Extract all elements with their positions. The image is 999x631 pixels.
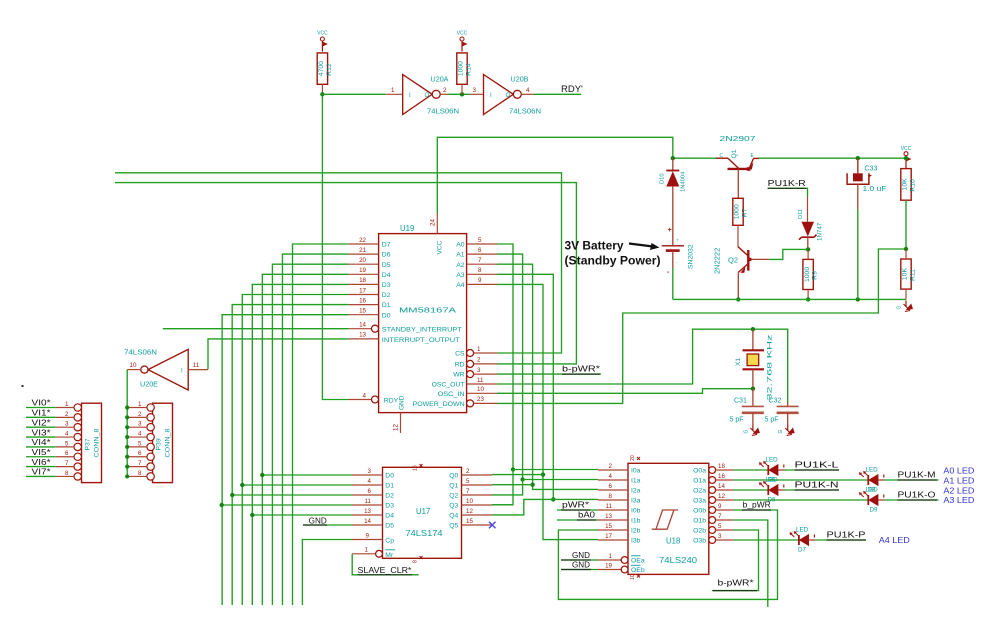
wire Q0 to A4 — [492, 474, 543, 476]
wire pin stub P39.2 — [128, 416, 147, 418]
svg-text:CONN_8: CONN_8 — [94, 428, 101, 457]
bubble U20E output — [141, 366, 148, 373]
wire pin stub U20B pin3 — [470, 93, 484, 95]
wire pin stub U19 D0 — [349, 314, 379, 316]
wire net b_pWR loop I2b-O0b — [558, 510, 777, 599]
svg-text:3: 3 — [138, 421, 142, 428]
svg-text:I0b: I0b — [631, 508, 641, 515]
svg-text:15: 15 — [359, 308, 366, 315]
wire net A1 — [497, 254, 523, 479]
svg-text:74LS06N: 74LS06N — [509, 107, 541, 116]
junction rail/C33 top — [856, 156, 860, 160]
svg-text:U20B: U20B — [511, 75, 529, 84]
svg-text:LED: LED — [866, 467, 879, 474]
svg-text:LED: LED — [866, 487, 879, 494]
wire net RDY' — [534, 93, 581, 95]
wire net RDY to U20A input — [322, 93, 385, 95]
svg-text:1000: 1000 — [804, 267, 811, 282]
wire pin stub U17 Q1 — [462, 484, 493, 486]
wire pin stub U18 I3a — [598, 499, 628, 501]
capacitor C31 — [742, 389, 764, 425]
svg-text:A3 LED: A3 LED — [943, 495, 974, 505]
wire pin stub U17 Q5 — [462, 524, 493, 526]
pin circle P37.6 — [74, 453, 81, 460]
inverter U20A — [403, 75, 433, 115]
svg-text:1: 1 — [65, 401, 69, 408]
wire R12 bottom lead — [321, 84, 323, 94]
wire net SLAVE_CLR* to U17 Mr — [352, 554, 418, 575]
wire pin stub U19 D2 — [349, 294, 379, 296]
resistor R12 — [317, 53, 333, 84]
svg-text:I1a: I1a — [631, 478, 641, 485]
svg-text:VI3*: VI3* — [32, 427, 52, 437]
svg-text:32.768 KHz: 32.768 KHz — [767, 335, 774, 401]
wire pin stub U19 OSC_OUT — [467, 383, 497, 385]
svg-text:bA0: bA0 — [578, 511, 596, 520]
svg-text:PU1K-N: PU1K-N — [795, 481, 839, 490]
svg-text:+: + — [676, 238, 679, 243]
svg-text:6: 6 — [609, 483, 613, 490]
svg-text:9: 9 — [366, 532, 370, 539]
wire bus to U17 D4 — [252, 514, 352, 516]
wire pin stub U17 Q3 — [462, 504, 493, 506]
wire data bus D7 — [293, 244, 349, 605]
svg-text:WR: WR — [453, 372, 464, 379]
wire pin stub U19 D1 — [349, 304, 379, 306]
svg-text:O: O — [506, 93, 511, 99]
pin circle P37.8 — [74, 473, 81, 480]
zener diode D11 1N747 — [799, 222, 817, 250]
wire net VI4* — [26, 446, 56, 448]
svg-text:D2: D2 — [385, 493, 394, 500]
wire pin stub U19 pin14 — [349, 328, 372, 330]
pin circle P37.5 — [74, 443, 81, 450]
svg-text:10K: 10K — [902, 268, 909, 281]
svg-text:LED: LED — [796, 527, 809, 534]
wire pin stub U18 O2a — [716, 489, 734, 491]
power symbol VCC right — [901, 146, 912, 169]
wire data bus D1 — [232, 305, 348, 605]
pin circle P37.1 — [74, 404, 81, 411]
svg-text:1: 1 — [365, 547, 369, 554]
wire R10 to divider — [905, 200, 907, 249]
svg-text:P37: P37 — [85, 438, 92, 450]
svg-text:PU1K-O: PU1K-O — [898, 491, 936, 500]
junction crystal top/OSC_OUT — [751, 327, 755, 331]
wire pin stub U17 Cp — [352, 539, 383, 541]
wire net VI7* — [26, 475, 56, 477]
IC U18 74LS240 body — [628, 463, 709, 574]
bubble U18 O0b — [709, 507, 716, 514]
svg-text:9: 9 — [478, 277, 482, 284]
wire pin stub U18 O2b — [716, 529, 734, 531]
wire net b-pWR* from O2b — [712, 530, 759, 591]
wire pin stub U19 D3 — [349, 283, 379, 285]
wire R9 bottom lead — [807, 290, 809, 300]
svg-text:Q2: Q2 — [728, 256, 738, 265]
wire net b-pWR* at WR — [497, 373, 601, 375]
wire net VI2* — [26, 426, 56, 428]
wire net GND to OEa — [561, 559, 598, 561]
svg-text:A0: A0 — [456, 242, 465, 249]
svg-text:1000: 1000 — [734, 204, 741, 219]
svg-text:5: 5 — [478, 237, 482, 244]
junction P39 bus pin 4 — [125, 435, 129, 439]
wire pin stub U19 GND pin12 — [400, 413, 402, 433]
svg-text:C: C — [720, 153, 724, 159]
wire pin stub U20A pin1 — [386, 93, 403, 95]
svg-text:b-pWR*: b-pWR* — [718, 578, 754, 587]
wire net OSC_IN to crystal — [497, 389, 753, 394]
wire data bus D6 — [282, 254, 348, 605]
capacitor C33 1.0uF — [847, 158, 872, 299]
svg-text:PU1K-R: PU1K-R — [768, 179, 806, 188]
bubble U19 WR — [467, 371, 474, 378]
wire net A2 — [497, 264, 598, 489]
wire pin stub U19 A2 — [467, 263, 497, 265]
bubble U18 O1a — [709, 477, 716, 484]
wire pin stub U19 D5 — [349, 263, 379, 265]
bubble U20A output — [432, 90, 440, 98]
wire pin stub U19 POWER_DOWN — [474, 402, 497, 404]
svg-text:10: 10 — [477, 386, 484, 393]
svg-text:RD: RD — [455, 362, 465, 369]
svg-text:7: 7 — [466, 488, 470, 495]
svg-text:D3: D3 — [382, 282, 391, 289]
junction R14/gate wire — [460, 92, 464, 96]
svg-text:R12: R12 — [326, 63, 333, 76]
bubble U18 O2a — [709, 487, 716, 494]
wire pin stub P37.1 — [56, 407, 74, 409]
svg-text:I3a: I3a — [631, 498, 641, 505]
wire net POWER_DOWN — [497, 249, 906, 403]
wire pin stub U19 RD — [474, 363, 497, 365]
wire pin stub U18 I1a — [598, 479, 628, 481]
svg-text:4: 4 — [368, 478, 372, 485]
wire pin stub U18 O0a — [716, 469, 734, 471]
wire net PU1K-M — [885, 479, 939, 481]
wire pin stub U17 D3 — [352, 504, 383, 506]
svg-text:9: 9 — [718, 503, 722, 510]
label underline PU1K-O — [898, 499, 938, 501]
svg-text:GND: GND — [309, 516, 327, 525]
svg-text:4: 4 — [363, 392, 367, 399]
wire ground rail — [673, 298, 906, 300]
svg-text:2: 2 — [65, 411, 69, 418]
junction D11/R9/Q2 base — [806, 247, 810, 251]
svg-text:20: 20 — [630, 455, 636, 461]
svg-text:A2 LED: A2 LED — [943, 485, 974, 495]
junction bus/D4 — [250, 513, 254, 517]
svg-text:STANDBY_INTERRUPT: STANDBY_INTERRUPT — [382, 327, 462, 334]
svg-text:10: 10 — [130, 362, 137, 369]
pin circle P39.7 — [147, 463, 154, 470]
svg-text:Cp: Cp — [385, 538, 394, 545]
bubble U19 STANDBY_INTERRUPT — [372, 325, 379, 332]
junction bus/D1 — [240, 483, 244, 487]
svg-text:7: 7 — [138, 460, 142, 467]
wire pin stub P37.8 — [56, 475, 74, 477]
ground symbol at C32 — [778, 425, 795, 436]
wire pin stub U19 A0 — [467, 243, 497, 245]
resistor R14 — [457, 53, 473, 84]
svg-text:A4 LED: A4 LED — [879, 535, 910, 545]
wire net STANDBY_INTERRUPT — [163, 328, 349, 330]
svg-text:O2b: O2b — [693, 528, 706, 535]
svg-text:O3a: O3a — [693, 498, 706, 505]
svg-text:5 pF: 5 pF — [730, 417, 744, 424]
resistor R10 — [901, 169, 917, 201]
svg-text:6: 6 — [368, 488, 372, 495]
svg-text:18: 18 — [718, 463, 725, 470]
wire bus to U17 D2 — [232, 494, 352, 496]
wire net pWR* to I0b — [557, 509, 598, 511]
label underline PU1K-L — [795, 469, 840, 471]
junction R9/ground rail — [806, 297, 810, 301]
svg-text:A1: A1 — [456, 252, 465, 259]
svg-text:D4: D4 — [385, 513, 394, 520]
pin circle P39.5 — [147, 443, 154, 450]
svg-text:5 pF: 5 pF — [765, 417, 779, 424]
wire pin stub U17 D4 — [352, 514, 383, 516]
svg-text:C32: C32 — [769, 398, 782, 405]
svg-text:1000: 1000 — [458, 61, 465, 76]
svg-text:POWER_DOWN: POWER_DOWN — [413, 401, 465, 408]
svg-text:GND: GND — [399, 395, 406, 410]
wire pin stub U18 O3a — [716, 499, 734, 501]
svg-text:I3b: I3b — [631, 538, 641, 545]
bubble U19 CS — [467, 350, 474, 357]
junction VCC-standby/D10 — [671, 156, 675, 160]
svg-text:GND: GND — [572, 561, 590, 570]
annotation arrow to battery — [629, 244, 653, 247]
svg-text:4700: 4700 — [318, 61, 325, 76]
bubble U18 OEa — [621, 557, 628, 564]
wire pin stub P39.3 — [128, 426, 147, 428]
wire pin stub U19 A4 — [467, 283, 497, 285]
svg-text:(Standby Power): (Standby Power) — [565, 256, 661, 268]
label underline PU1K-M — [898, 479, 938, 481]
wire pin stub P39.6 — [128, 456, 147, 458]
svg-text:3: 3 — [65, 421, 69, 428]
svg-text:Q3: Q3 — [449, 503, 458, 510]
wire net P39 common bus — [126, 370, 128, 477]
wire net VI1* — [26, 416, 56, 418]
svg-text:19: 19 — [359, 267, 366, 274]
wire pin stub U20A pin2 — [440, 93, 448, 95]
svg-text:3: 3 — [718, 533, 722, 540]
svg-text:A2: A2 — [456, 262, 465, 269]
svg-text:GND: GND — [572, 551, 590, 560]
LED D8 — [859, 471, 885, 485]
wire pin stub P39.5 — [128, 446, 147, 448]
svg-text:11: 11 — [477, 377, 484, 384]
svg-text:OEb: OEb — [631, 567, 645, 574]
svg-text:11: 11 — [365, 498, 372, 505]
svg-text:2: 2 — [443, 87, 447, 94]
bubble U18 O2b — [709, 527, 716, 534]
wire data bus D0 — [222, 315, 348, 605]
svg-text:A0 LED: A0 LED — [943, 466, 974, 476]
svg-text:1.0 uF: 1.0 uF — [863, 186, 887, 193]
svg-text:R10: R10 — [910, 179, 917, 192]
svg-text:Q1: Q1 — [731, 149, 738, 158]
inverter U20B — [484, 75, 514, 115]
svg-text:3: 3 — [368, 468, 372, 475]
svg-text:R14: R14 — [466, 63, 473, 76]
svg-text:3V Battery: 3V Battery — [565, 241, 625, 253]
svg-text:2N2222: 2N2222 — [713, 248, 722, 274]
no-connect X at U17 Q5 — [489, 522, 496, 528]
svg-text:VI1*: VI1* — [32, 408, 52, 418]
pin circle P37.3 — [74, 424, 81, 431]
svg-text:D0: D0 — [385, 473, 394, 480]
wire bus to U17 D0 — [262, 474, 352, 476]
svg-text:D5: D5 — [382, 262, 391, 269]
wire pin stub U17 D1 — [352, 484, 383, 486]
svg-text:3: 3 — [473, 87, 477, 94]
svg-text:Q4: Q4 — [449, 513, 458, 520]
svg-text:A1 LED: A1 LED — [943, 476, 974, 486]
wire pin stub P37.4 — [56, 436, 74, 438]
wire pin stub U17 Q0 — [462, 474, 493, 476]
wire pin stub P39.7 — [128, 466, 147, 468]
wire pin stub P37.5 — [56, 446, 74, 448]
wire pin stub P37.7 — [56, 466, 74, 468]
label underline b-pWR* (WR) — [562, 373, 600, 375]
wire pin stub U19 A1 — [467, 253, 497, 255]
label underline PU1K-P — [827, 539, 867, 541]
wire net bA0 to I1b — [557, 519, 598, 521]
wire pin stub U17 Q4 — [462, 514, 493, 516]
IC U17 74LS174 body — [383, 467, 462, 558]
svg-text:16: 16 — [718, 473, 725, 480]
wire data bus D4 — [262, 274, 348, 605]
schmitt hysteresis symbol U18 — [652, 510, 678, 529]
power symbol VCC at R12 — [317, 31, 328, 52]
svg-text:D6: D6 — [382, 252, 391, 259]
svg-text:R11: R11 — [910, 269, 917, 281]
svg-text:D2: D2 — [382, 292, 391, 299]
wire antenna from O1b — [734, 520, 768, 607]
junction bus/D2 — [230, 493, 234, 497]
pin circle P37.7 — [74, 463, 81, 470]
junction P39 bus pin 6 — [125, 455, 129, 459]
svg-text:VCC: VCC — [317, 31, 328, 37]
svg-text:X1: X1 — [735, 358, 742, 366]
svg-text:C33: C33 — [865, 166, 878, 173]
svg-text:2: 2 — [477, 357, 481, 364]
svg-text:LED: LED — [766, 457, 779, 464]
svg-text:VCC: VCC — [901, 146, 912, 152]
wire pin stub P39.1 — [128, 407, 147, 409]
wire pin stub U20E pin10 — [127, 369, 141, 371]
svg-text:16: 16 — [413, 465, 419, 471]
svg-text:SN2032: SN2032 — [688, 244, 695, 269]
pin circle P39.8 — [147, 473, 154, 480]
wire net A4 — [497, 284, 598, 539]
svg-text:23: 23 — [477, 396, 484, 403]
wire R14 bottom lead — [461, 84, 463, 94]
wire net RD horizontal — [115, 183, 576, 364]
wire pin stub P37.3 — [56, 426, 74, 428]
svg-text:U18: U18 — [666, 537, 680, 546]
svg-text:D11: D11 — [798, 209, 804, 219]
junction P39 bus pin 2 — [125, 415, 129, 419]
svg-text:74LS06N: 74LS06N — [427, 107, 459, 116]
wire pin stub U19 D4 — [349, 273, 379, 275]
svg-text:OEa: OEa — [631, 558, 645, 565]
wire net GND to OEb — [561, 569, 598, 571]
crystal X1 32.768KHz — [743, 329, 765, 389]
svg-text:1N747: 1N747 — [817, 222, 824, 241]
wire O1a to LED D8 — [734, 479, 869, 481]
svg-text:O0a: O0a — [693, 468, 706, 475]
svg-text:10K: 10K — [902, 178, 909, 191]
wire A1 net to I1a — [523, 479, 598, 481]
svg-text:D4: D4 — [382, 272, 391, 279]
wire pin stub U19 CS — [474, 352, 497, 354]
wire Q4 riser to A3/I3a — [492, 499, 598, 515]
svg-text:11: 11 — [193, 362, 200, 369]
wire net VCC-standby U19 to battery circuit — [437, 137, 673, 213]
wire R11 bottom lead — [905, 289, 907, 299]
wire pin stub U18 OEa — [598, 559, 621, 561]
svg-text:VI5*: VI5* — [32, 447, 52, 457]
transistor Q1 2N2907 — [716, 158, 759, 198]
label underline PU1K-N — [795, 489, 840, 491]
wire pin stub U17 D2 — [352, 494, 383, 496]
wire bus to U17 D1 — [242, 484, 352, 486]
svg-text:5: 5 — [718, 523, 722, 530]
junction crystal bottom/OSC_IN/C31 — [751, 387, 755, 391]
label underline GND (OEb) — [561, 569, 591, 571]
svg-text:+: + — [668, 225, 673, 234]
stray period mark — [22, 385, 24, 387]
svg-text:A3: A3 — [456, 272, 465, 279]
junction P39 bus pin 8 — [125, 474, 129, 478]
label underline b-pWR* (O2b) — [713, 590, 757, 592]
svg-text:14: 14 — [364, 518, 371, 525]
svg-text:6: 6 — [478, 247, 482, 254]
LED D9 — [859, 491, 885, 505]
wire net A3 — [497, 274, 553, 499]
svg-text:4: 4 — [65, 430, 69, 437]
junction A0/I0a — [511, 467, 515, 471]
svg-text:O1b: O1b — [693, 518, 706, 525]
svg-text:10: 10 — [466, 498, 473, 505]
svg-text:I2a: I2a — [631, 488, 641, 495]
wire net OSC_OUT to crystal — [497, 329, 788, 402]
wire net PU1K-L — [785, 469, 839, 471]
wire pin stub U18 I0b — [598, 509, 628, 511]
svg-text:1: 1 — [138, 401, 142, 408]
svg-text:Q2: Q2 — [449, 493, 458, 500]
svg-text:5: 5 — [466, 478, 470, 485]
svg-text:VI7*: VI7* — [32, 467, 52, 477]
svg-text:13: 13 — [605, 513, 612, 520]
resistor R7 — [733, 198, 749, 225]
svg-text:U19: U19 — [400, 224, 414, 233]
wire net VI0* — [26, 407, 56, 409]
junction A4/Q0 — [541, 472, 545, 476]
svg-text:U20E: U20E — [140, 380, 158, 389]
junction A1/I1a — [520, 477, 524, 481]
junction bus/D0 — [260, 473, 264, 477]
connector P37 CONN_8 body — [82, 403, 102, 482]
wire bus to U17 D3 — [222, 504, 352, 506]
svg-text:OSC_OUT: OSC_OUT — [432, 382, 465, 389]
